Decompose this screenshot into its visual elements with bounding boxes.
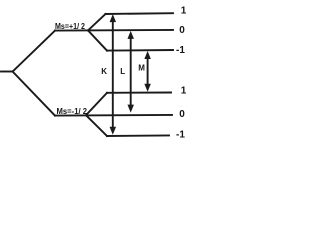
svg-text:Ms=+1/ 2: Ms=+1/ 2 xyxy=(55,22,86,31)
svg-text:K: K xyxy=(101,67,107,76)
svg-text:-1: -1 xyxy=(176,45,185,56)
svg-text:0: 0 xyxy=(179,109,185,120)
svg-text:Ms=-1/ 2: Ms=-1/ 2 xyxy=(57,107,88,116)
svg-text:0: 0 xyxy=(179,25,185,36)
svg-text:1: 1 xyxy=(181,5,187,16)
svg-text:M: M xyxy=(138,64,145,73)
svg-text:L: L xyxy=(120,67,125,76)
svg-text:-1: -1 xyxy=(176,130,185,141)
svg-text:1: 1 xyxy=(181,86,187,97)
